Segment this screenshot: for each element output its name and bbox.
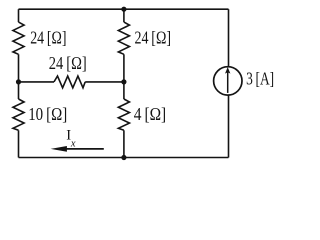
wire left branch upper lead — [18, 9, 20, 22]
wire middle branch middle lead to node B — [123, 54, 125, 99]
wire bottom (node between left, middle and right branches) — [19, 157, 229, 159]
arrow Ix head — [51, 146, 67, 152]
resistor 24[Ω] left branch top zigzag — [13, 22, 24, 54]
wire bridge right segment to node B — [85, 81, 124, 83]
wire left branch lower lead — [18, 130, 20, 157]
wire bridge left segment from node A — [19, 81, 55, 83]
arrow Ix current direction (pointing left) — [60, 148, 104, 150]
svg-text:10 [Ω]: 10 [Ω] — [28, 104, 67, 124]
resistor 24[Ω] middle branch top zigzag — [118, 22, 129, 54]
current source I1 arrow head — [225, 67, 230, 74]
node junction dot top middle — [121, 7, 126, 12]
svg-text:24 [Ω]: 24 [Ω] — [30, 27, 66, 47]
node junction dot bottom middle — [121, 155, 126, 160]
current source I1 arrow shaft — [227, 72, 229, 93]
current source I1 circle — [214, 67, 242, 95]
wire middle branch upper lead — [123, 9, 125, 22]
svg-text:4 [Ω]: 4 [Ω] — [134, 104, 167, 124]
resistor 10[Ω] left branch bottom zigzag — [13, 99, 24, 130]
wire left branch middle lead to node A — [18, 54, 20, 99]
svg-text:24 [Ω]: 24 [Ω] — [49, 53, 87, 73]
svg-text:24 [Ω]: 24 [Ω] — [135, 27, 172, 47]
wire top (node between left, middle and right branches) — [19, 8, 229, 10]
resistor 24[Ω] bridge zigzag — [54, 76, 85, 88]
resistor 4[Ω] middle branch bottom zigzag — [118, 99, 129, 130]
node B junction dot middle middle — [121, 79, 126, 84]
wire right branch lower lead — [228, 95, 230, 157]
svg-text:3 [A]: 3 [A] — [246, 69, 274, 89]
node A junction dot left middle — [16, 79, 21, 84]
wire right branch upper lead — [228, 9, 230, 67]
svg-text:x: x — [70, 139, 76, 150]
wire middle branch lower lead — [123, 130, 125, 157]
